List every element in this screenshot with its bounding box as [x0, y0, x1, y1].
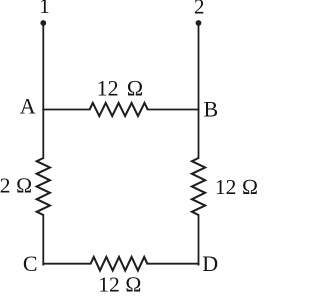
svg-text:C: C [23, 251, 38, 276]
terminal 2 dot [196, 20, 202, 26]
wire node A to resistor R2 top [42, 110, 44, 159]
svg-text:2: 2 [194, 0, 205, 19]
svg-text:Ω: Ω [126, 76, 143, 101]
resistor R4 12 ohm (bottom, between C and D) [91, 257, 148, 271]
resistor R3 12 ohm (right, between B and D) [192, 158, 205, 215]
wire node B to resistor R3 top [198, 110, 200, 159]
wire node A to resistor R1 left lead [43, 109, 89, 111]
svg-text:A: A [20, 93, 36, 118]
svg-text:12 Ω: 12 Ω [215, 175, 258, 199]
terminal 1 dot [40, 20, 46, 26]
wire resistor R4 right lead to node D [147, 263, 198, 265]
svg-text:12 Ω: 12 Ω [98, 272, 141, 296]
svg-text:2 Ω: 2 Ω [0, 174, 32, 198]
resistor R2 2 ohm (left, between A and C) [37, 158, 50, 215]
wire node C to resistor R4 left lead [43, 263, 90, 265]
resistor R1 12 ohm (top, between A and B) [90, 103, 148, 116]
svg-text:D: D [202, 251, 218, 276]
wire terminal 2 to node B [198, 23, 200, 110]
svg-text:12: 12 [97, 76, 119, 101]
wire resistor R2 bottom to node C [42, 215, 44, 265]
svg-text:B: B [203, 96, 218, 121]
svg-text:1: 1 [39, 0, 50, 18]
wire terminal 1 to node A [42, 23, 44, 110]
wire resistor R3 bottom to node D [198, 215, 200, 265]
wire resistor R1 right lead to node B [148, 109, 199, 111]
